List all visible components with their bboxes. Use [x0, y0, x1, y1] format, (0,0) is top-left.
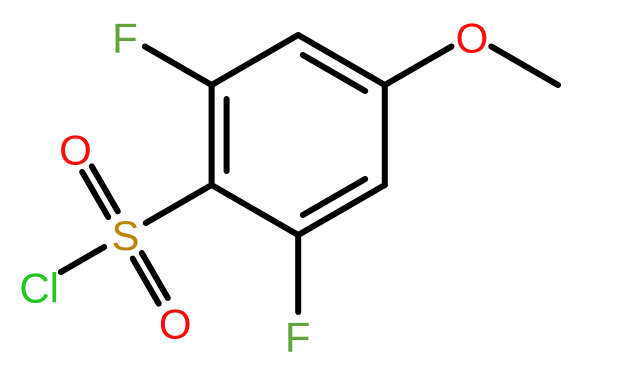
- svg-text:F: F: [112, 14, 138, 61]
- bond C3-C4 ring edge: [298, 35, 385, 85]
- svg-text:O: O: [59, 126, 92, 173]
- bond C5-C6 inner aromatic line: [303, 179, 365, 215]
- bond C6-C1 ring edge: [212, 185, 299, 235]
- bond S=O3 double line a: [142, 253, 168, 298]
- svg-text:S: S: [111, 212, 139, 259]
- bond C3-C4 inner aromatic line: [303, 55, 365, 91]
- bond F1-C2: [145, 47, 212, 86]
- bond O1-CH3: [491, 47, 558, 86]
- svg-text:O: O: [456, 14, 489, 61]
- bond C4-C5 ring edge: [382, 85, 388, 185]
- bond C1-C2 inner aromatic line: [224, 99, 230, 171]
- bond C1-C2 ring edge: [209, 85, 215, 185]
- bond C2-C3 ring edge: [212, 35, 299, 85]
- svg-text:O: O: [159, 300, 192, 347]
- bond S=O2 double line a: [92, 166, 118, 211]
- bond C5-C6 ring edge: [298, 185, 385, 235]
- bond C6-F2: [295, 235, 301, 312]
- bond S-Cl: [61, 247, 104, 272]
- bond O1-C4: [385, 47, 452, 86]
- bond S=O3 double line b: [133, 259, 159, 304]
- bond S-C1: [146, 185, 212, 223]
- svg-text:F: F: [285, 313, 311, 360]
- bond S=O2 double line b: [82, 172, 108, 217]
- svg-text:Cl: Cl: [19, 265, 59, 312]
